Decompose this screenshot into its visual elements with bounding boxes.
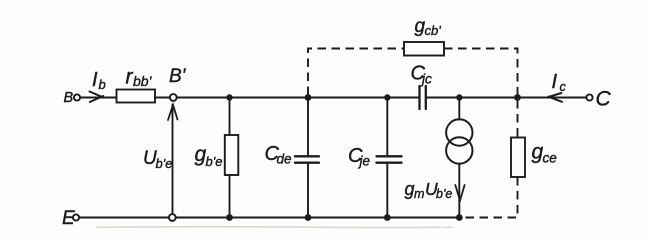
svg-text:bb': bb' bbox=[133, 73, 153, 89]
svg-text:I: I bbox=[92, 69, 98, 91]
svg-text:b'e: b'e bbox=[156, 156, 173, 171]
svg-text:E: E bbox=[62, 208, 75, 229]
svg-text:B: B bbox=[64, 90, 74, 106]
svg-text:jc: jc bbox=[420, 71, 432, 86]
svg-text:b: b bbox=[99, 77, 106, 92]
svg-text:je: je bbox=[358, 154, 371, 169]
svg-text:C: C bbox=[596, 87, 612, 110]
svg-text:m: m bbox=[414, 187, 424, 201]
svg-text:I: I bbox=[552, 71, 558, 93]
svg-text:cb': cb' bbox=[425, 23, 442, 38]
svg-text:de: de bbox=[277, 152, 292, 167]
svg-text:c: c bbox=[560, 80, 567, 94]
svg-text:b'e: b'e bbox=[206, 154, 223, 169]
svg-text:B': B' bbox=[169, 66, 187, 87]
svg-text:b'e: b'e bbox=[436, 187, 452, 201]
svg-text:g: g bbox=[405, 179, 415, 199]
svg-text:ce: ce bbox=[543, 151, 557, 166]
